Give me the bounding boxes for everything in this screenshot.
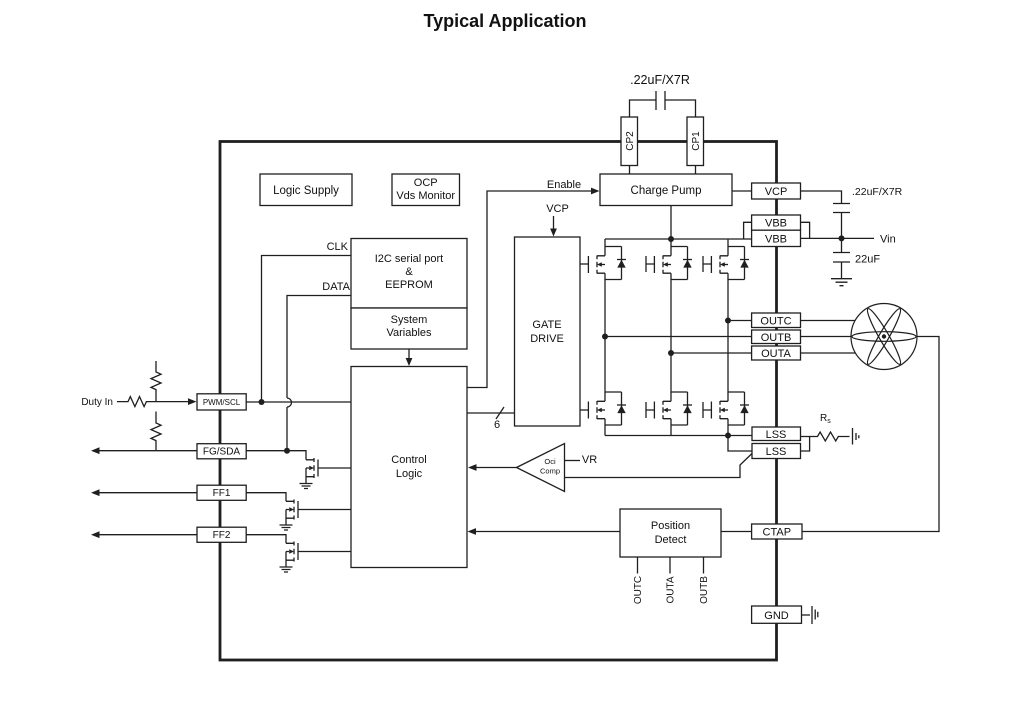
- wire LSS bottom rail: [605, 435, 752, 437]
- arrowhead System Variables into Control Logic: [406, 358, 413, 366]
- transistor Q8 (low side B): [654, 392, 692, 425]
- wire OUTB to pin: [605, 336, 752, 338]
- wire 6-bit bus Control Logic to Gate Drive: [467, 412, 515, 414]
- svg-text:Control: Control: [391, 454, 426, 466]
- svg-text:DATA: DATA: [322, 281, 350, 293]
- resistor Rs (sense): [810, 432, 850, 441]
- svg-text:CP2: CP2: [625, 131, 636, 151]
- wire VCP pin to external cap: [801, 191, 842, 204]
- wire drain top B: [670, 239, 672, 247]
- svg-text:Oci: Oci: [544, 457, 556, 466]
- wire source bottom A to LSS rail: [604, 425, 606, 436]
- node PWM/CLK: [259, 399, 265, 405]
- wire CP1 stub: [695, 166, 697, 175]
- pin CP1: [687, 117, 704, 166]
- svg-text:Comp: Comp: [540, 467, 560, 476]
- wire gate stub bottom C: [703, 402, 711, 418]
- pin OUTB: [752, 330, 801, 344]
- op-amp U1 Oci Comp: [517, 444, 565, 492]
- svg-text:Logic: Logic: [396, 468, 423, 480]
- wire Position Detect to CTAP: [721, 531, 752, 533]
- wire Duty In to PWM/SCL: [117, 397, 189, 407]
- svg-text:FF1: FF1: [213, 488, 231, 499]
- wire PWM/SCL to Control Logic with hop: [246, 401, 351, 403]
- block I2C serial port & EEPROM: [351, 239, 467, 309]
- wire FF2 out: [95, 534, 197, 536]
- svg-text:&: &: [405, 266, 413, 278]
- svg-text:OUTB: OUTB: [699, 576, 710, 604]
- capacitor C1 .22uF/X7R (charge pump pump cap): [630, 91, 696, 117]
- wire Q1 gate to Control Logic: [318, 467, 351, 469]
- pin FF2: [197, 527, 246, 542]
- svg-text:Rs: Rs: [820, 413, 831, 425]
- svg-text:LSS: LSS: [766, 429, 787, 441]
- transistor Q5 (high side B): [654, 247, 692, 280]
- svg-text:DRIVE: DRIVE: [530, 333, 564, 345]
- svg-text:Duty In: Duty In: [81, 397, 113, 408]
- wire LSS right bracket: [801, 437, 810, 452]
- svg-text:OUTC: OUTC: [633, 576, 644, 604]
- wire Position Detect to Control Logic: [472, 531, 621, 533]
- svg-text:VR: VR: [582, 454, 597, 466]
- wire OUTA to motor: [801, 352, 856, 354]
- pin LSS (bottom): [752, 444, 801, 459]
- pin CTAP: [752, 524, 802, 539]
- transistor Q2 (FF1 driver): [280, 500, 299, 531]
- wire OUTA to pin: [671, 352, 752, 354]
- svg-text:VCP: VCP: [546, 203, 569, 215]
- svg-text:FF2: FF2: [213, 530, 231, 541]
- wire VR input: [565, 460, 581, 462]
- wire DATA: [287, 296, 351, 452]
- wire FG/SDA out: [95, 450, 197, 452]
- svg-text:Vin: Vin: [880, 234, 896, 246]
- wire phase B vertical: [670, 279, 672, 393]
- svg-text:CTAP: CTAP: [763, 527, 792, 539]
- node OUTC: [725, 318, 731, 324]
- bus slash: [496, 407, 504, 419]
- motor M1 (fan): [851, 304, 917, 370]
- node OUTB: [602, 334, 608, 340]
- wire FF1 out: [95, 492, 197, 494]
- svg-text:CLK: CLK: [327, 241, 349, 253]
- block Logic Supply: [260, 174, 352, 206]
- svg-text:CP1: CP1: [691, 131, 702, 151]
- wire CTAP to motor: [802, 337, 939, 532]
- pin VBB (bottom): [752, 230, 801, 246]
- wire gate stub top C: [703, 256, 711, 272]
- svg-text:22uF: 22uF: [855, 254, 880, 266]
- svg-text:VCP: VCP: [765, 186, 788, 198]
- pin GND: [752, 606, 802, 623]
- wire phase A vertical: [604, 279, 606, 393]
- svg-text:Enable: Enable: [547, 179, 581, 191]
- svg-text:.22uF/X7R: .22uF/X7R: [852, 186, 903, 198]
- arrowhead FF2 out: [91, 531, 100, 538]
- block Charge Pump: [600, 174, 732, 206]
- ground (below 22uF): [831, 279, 852, 286]
- wire gate stub top B: [646, 256, 654, 272]
- wire comp input from LSS: [565, 454, 753, 478]
- svg-text:LSS: LSS: [766, 446, 787, 458]
- pin OUTC: [752, 313, 801, 328]
- node charge pump / VBB rail: [668, 236, 674, 242]
- capacitor C2 .22uF/X7R (VCP reservoir): [833, 204, 850, 239]
- arrowhead Enable into Charge Pump: [591, 188, 600, 195]
- transistor Q1 (FG/SDA driver): [300, 458, 319, 489]
- svg-text:System: System: [391, 314, 428, 326]
- wire comp output to Control Logic: [472, 467, 517, 469]
- pin FF1: [197, 485, 246, 500]
- svg-text:OUTA: OUTA: [761, 348, 791, 360]
- svg-text:Charge Pump: Charge Pump: [631, 185, 702, 197]
- wire Q3 gate to Control Logic: [298, 551, 351, 553]
- wire OUTC to pin: [728, 320, 752, 322]
- svg-text:Position: Position: [651, 520, 690, 532]
- pin FG/SDA: [197, 444, 246, 459]
- capacitor C3 22uF (bulk): [833, 238, 850, 278]
- wire FF2 to Q3: [246, 535, 286, 544]
- wire FF1 to Q2: [246, 493, 286, 502]
- block Position Detect: [620, 509, 721, 557]
- ground (right of Rs): [853, 428, 859, 445]
- wire VBB right bracket: [801, 222, 810, 238]
- resistor R2 (pull-up on FG): [151, 412, 161, 451]
- wire OUTC to motor: [801, 320, 856, 322]
- svg-text:VBB: VBB: [765, 234, 787, 246]
- svg-text:6: 6: [494, 419, 500, 431]
- wire drain top C: [727, 239, 729, 247]
- transistor Q3 (FF2 driver): [280, 542, 299, 573]
- wire VBB top rail: [605, 238, 752, 240]
- svg-text:FG/SDA: FG/SDA: [203, 447, 241, 458]
- wire Charge Pump to VCP pin: [732, 190, 752, 192]
- svg-text:Logic Supply: Logic Supply: [273, 185, 339, 197]
- wire CP2 stub: [629, 166, 631, 175]
- node FG/DATA: [284, 448, 290, 454]
- wire Position Detect sense stubs: [638, 557, 704, 574]
- node Vin: [839, 235, 845, 241]
- svg-text:OUTC: OUTC: [760, 316, 791, 328]
- wire drain top A: [604, 239, 606, 247]
- transistor Q4 (high side A): [588, 247, 626, 280]
- svg-text:Variables: Variables: [386, 327, 432, 339]
- wire gate stub bottom B: [646, 402, 654, 418]
- wire gate lead top A: [580, 263, 588, 265]
- transistor Q9 (low side C): [711, 392, 749, 425]
- svg-text:Vds Monitor: Vds Monitor: [396, 190, 455, 202]
- wire Q2 gate to Control Logic: [298, 509, 351, 511]
- wire LSS left bracket: [728, 436, 752, 452]
- transistor Q6 (high side C): [711, 247, 749, 280]
- node LSS: [725, 433, 731, 439]
- svg-text:GATE: GATE: [532, 319, 561, 331]
- svg-text:Typical Application: Typical Application: [423, 11, 586, 31]
- arrowhead FF1 out: [91, 489, 100, 496]
- block OCP Vds Monitor: [392, 174, 460, 206]
- svg-text:OCP: OCP: [414, 177, 438, 189]
- wire source bottom B to LSS rail: [670, 425, 672, 436]
- svg-text:VBB: VBB: [765, 218, 787, 230]
- wire Charge Pump output down to VBB rail: [670, 206, 672, 240]
- pin PWM/SCL: [197, 394, 246, 410]
- pin VCP: [752, 183, 801, 199]
- svg-text:PWM/SCL: PWM/SCL: [203, 398, 241, 407]
- pin OUTA: [752, 346, 801, 360]
- wire System Variables to Control Logic: [408, 349, 410, 360]
- resistor R1 (pull-up on PWM): [151, 361, 161, 402]
- ground (GND pin): [812, 606, 818, 624]
- wire phase C vertical: [727, 279, 729, 393]
- pin LSS (top): [752, 427, 801, 441]
- wire source bottom C to LSS rail: [727, 425, 729, 436]
- arrowhead comp into Control Logic: [468, 464, 477, 471]
- wire FG/SDA to Q1: [246, 451, 306, 460]
- wire gate lead bottom A: [580, 409, 588, 411]
- arrowhead into PWM/SCL: [188, 398, 197, 405]
- svg-text:OUTA: OUTA: [666, 576, 677, 603]
- white gap between LSS pins: [770, 440, 784, 443]
- svg-text:GND: GND: [764, 610, 789, 622]
- wire OUTB to motor: [801, 336, 852, 338]
- svg-text:.22uF/X7R: .22uF/X7R: [630, 73, 690, 87]
- svg-text:EEPROM: EEPROM: [385, 279, 433, 291]
- pin CP2: [621, 117, 638, 166]
- block Control Logic: [351, 367, 467, 568]
- arrowhead Position Detect into Control Logic: [468, 528, 477, 535]
- chip boundary (IC outline): [220, 142, 777, 661]
- svg-text:I2C serial port: I2C serial port: [375, 253, 443, 265]
- wire VBB to Vin: [801, 237, 875, 239]
- pin VBB (top): [752, 215, 801, 230]
- arrowhead FG/SDA out: [91, 447, 100, 454]
- node OUTA: [668, 350, 674, 356]
- svg-text:Detect: Detect: [655, 534, 687, 546]
- block System Variables: [351, 308, 467, 349]
- block Gate Drive: [515, 237, 581, 426]
- arrowhead VCP into Gate Drive: [550, 229, 557, 237]
- svg-text:OUTB: OUTB: [761, 332, 792, 344]
- wire VBB left bracket: [744, 222, 752, 239]
- wire Enable (Control Logic to Charge Pump): [467, 191, 592, 388]
- wire CLK: [262, 256, 352, 403]
- wire GND pin to ground: [801, 614, 811, 616]
- transistor Q7 (low side A): [588, 392, 626, 425]
- wire VCP to Gate Drive: [553, 216, 555, 230]
